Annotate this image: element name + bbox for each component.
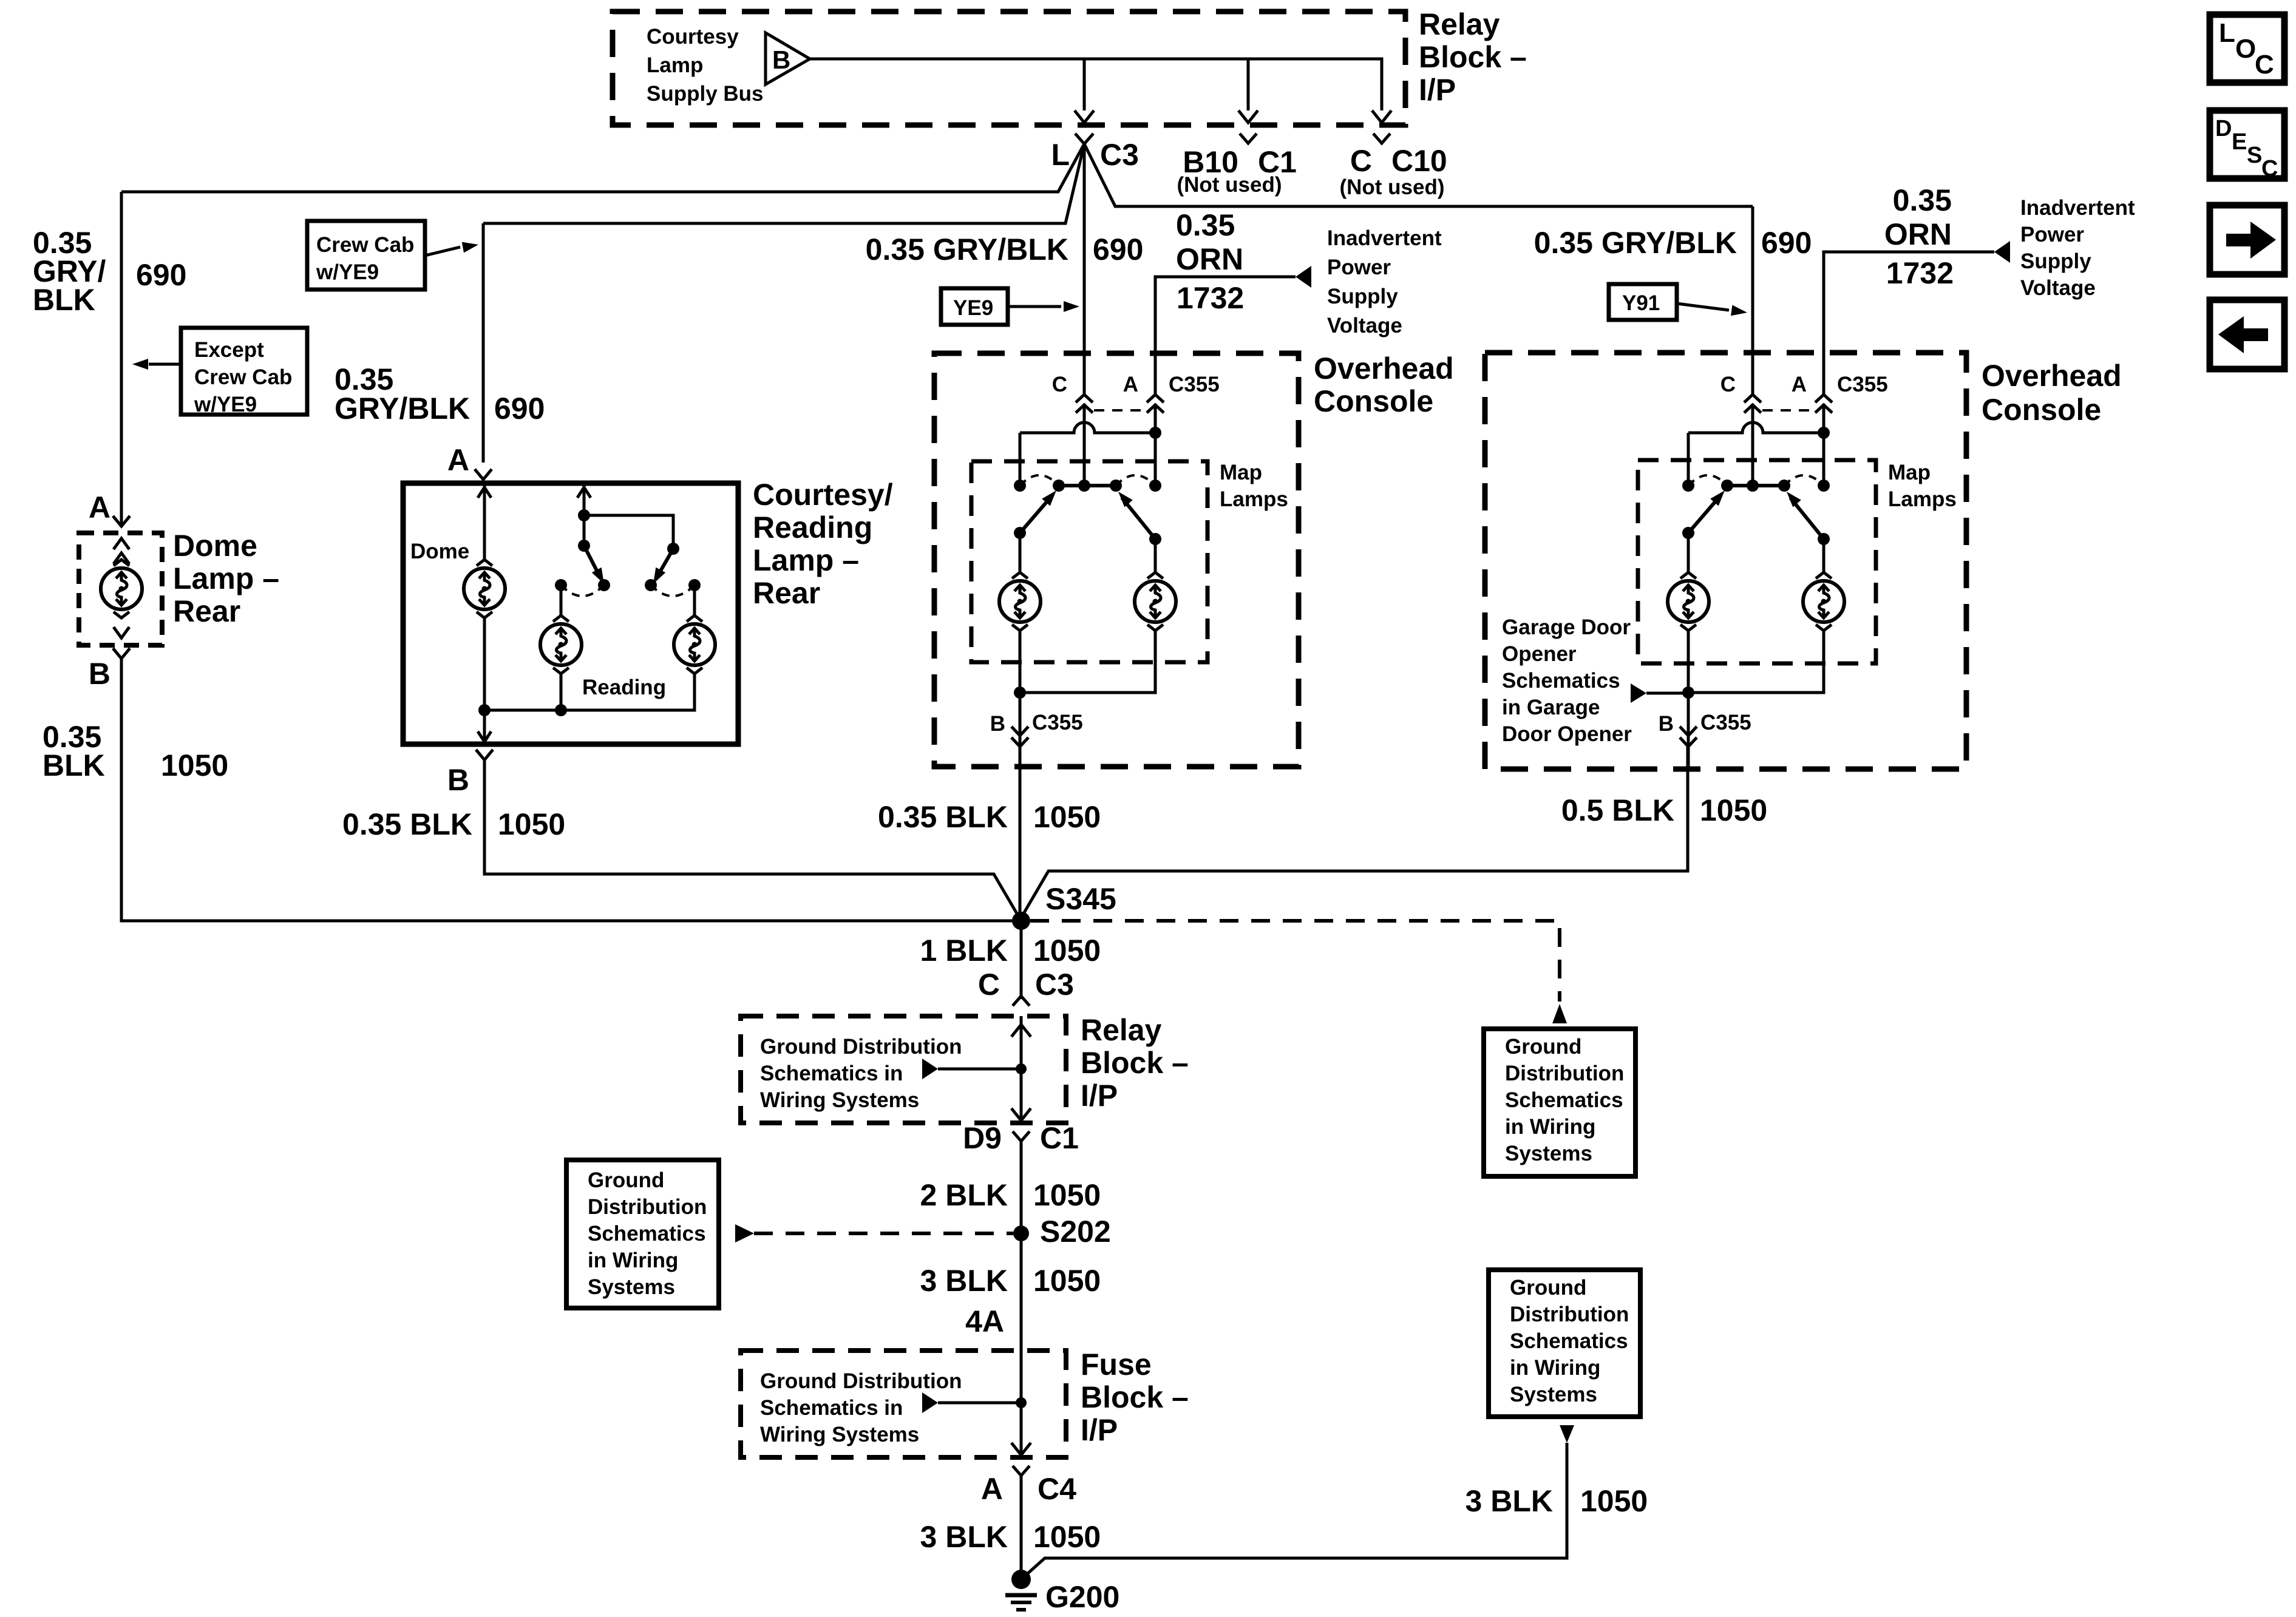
svg-text:Relay: Relay [1081, 1013, 1162, 1047]
node blade right pivot [1818, 533, 1830, 545]
svg-text:Console: Console [1982, 393, 2101, 427]
svg-text:Lamps: Lamps [1888, 487, 1957, 511]
wire lower right to G200 [1021, 1443, 1567, 1579]
node switch blade right pivot [667, 543, 679, 555]
overhead console (right) connector A chevrons [1815, 395, 1832, 402]
node blade left pivot [1682, 527, 1694, 539]
svg-text:B: B [990, 712, 1005, 736]
svg-text:Schematics: Schematics [1510, 1329, 1628, 1353]
YE9 box [941, 288, 1008, 325]
ground distribution box (left) [566, 1160, 719, 1308]
svg-text:BLK: BLK [42, 748, 105, 782]
dashed arc right [651, 585, 695, 596]
arrow down at x=2056 [1238, 110, 1258, 123]
wire dome bulb to bottom bus [483, 618, 486, 710]
svg-text:S345: S345 [1045, 882, 1116, 916]
wire B exit [1019, 693, 1022, 767]
svg-text:C3: C3 [1035, 968, 1074, 1002]
node contact right lamp [688, 579, 701, 591]
svg-text:0.35: 0.35 [1176, 208, 1235, 242]
relay block I/P dashed box (lower) [741, 1016, 1066, 1123]
svg-text:A: A [1123, 373, 1138, 396]
wire C down to middle console [1083, 144, 1086, 396]
dashed arc right [1116, 475, 1155, 486]
overhead console (right) dashed connector link [1762, 409, 1814, 412]
connector B dome chevron [113, 648, 130, 659]
node right contact [1149, 480, 1161, 492]
node left contact [1014, 480, 1026, 492]
svg-text:Inadvertent: Inadvertent [1327, 226, 1442, 250]
off-page triangle ORN right [1994, 241, 2010, 263]
svg-text:1050: 1050 [498, 807, 565, 841]
svg-text:Reading: Reading [582, 676, 666, 699]
svg-text:Systems: Systems [1505, 1142, 1592, 1165]
overhead console (middle) contact bus [1059, 484, 1116, 487]
svg-text:Distribution: Distribution [588, 1195, 707, 1219]
node A junction [1149, 427, 1161, 439]
node right contact [1818, 480, 1830, 492]
svg-text:C: C [2255, 50, 2274, 80]
arrow except crew cab [149, 363, 181, 366]
wire switch feed left drop [583, 515, 586, 546]
svg-text:1050: 1050 [1700, 793, 1767, 827]
switch blade left [584, 546, 598, 573]
arrow down at x=1786 [1075, 110, 1094, 123]
svg-text:Rear: Rear [173, 594, 240, 628]
wire middle console B to S345 [1019, 747, 1022, 914]
dashed reference to S202 [754, 1232, 1013, 1235]
svg-text:0.35 BLK: 0.35 BLK [878, 800, 1008, 834]
svg-text:BLK: BLK [33, 283, 95, 317]
dome lamp rear chevrons bottom [114, 627, 129, 638]
svg-text:1732: 1732 [1886, 256, 1954, 290]
switch blade left [1020, 498, 1050, 533]
svg-text:C355: C355 [1837, 373, 1888, 396]
svg-text:in Wiring: in Wiring [1505, 1115, 1595, 1139]
wire fan to crew-cab wire [483, 144, 1084, 223]
svg-text:690: 690 [1093, 232, 1143, 266]
svg-text:1050: 1050 [1033, 1520, 1101, 1554]
overhead console (middle) map lamps dashed box [971, 461, 1207, 662]
reading lamp left bulb [540, 615, 582, 674]
svg-text:690: 690 [136, 258, 186, 292]
svg-text:3 BLK: 3 BLK [920, 1264, 1008, 1298]
node bus dome [478, 704, 491, 716]
svg-text:4A: 4A [965, 1304, 1004, 1338]
svg-text:C: C [2261, 156, 2278, 181]
svg-text:(Not used): (Not used) [1339, 175, 1444, 199]
connector B courtesy chevron [476, 750, 493, 760]
overhead console (right) left branch [1687, 433, 1690, 486]
svg-text:Block –: Block – [1419, 40, 1527, 74]
svg-text:Relay: Relay [1419, 7, 1500, 41]
svg-text:Ground Distribution: Ground Distribution [760, 1035, 962, 1059]
overhead console (middle) wire A into switch [1154, 404, 1157, 486]
wire left rail upper [120, 192, 123, 526]
arrow down at x=2276 [1372, 110, 1391, 123]
relay block I/P dashed box [613, 12, 1405, 125]
svg-text:C355: C355 [1032, 711, 1083, 734]
svg-text:C: C [1350, 144, 1372, 178]
overhead console (middle) dashed connector link [1094, 409, 1146, 412]
svg-text:Lamp: Lamp [647, 53, 703, 77]
wire right console B down/left to S345 [1021, 747, 1688, 918]
svg-text:A: A [981, 1472, 1003, 1506]
node switch feed left [578, 509, 590, 521]
node bus centre [1747, 480, 1759, 492]
wire courtesy lamp supply bus [810, 59, 1382, 110]
wire switch feed stub [583, 483, 586, 515]
triangle to ground distribution box [1552, 1004, 1567, 1023]
svg-text:Voltage: Voltage [2020, 276, 2096, 300]
node B junction [1014, 686, 1026, 699]
svg-text:Schematics: Schematics [1502, 669, 1620, 693]
svg-text:GRY/BLK: GRY/BLK [335, 392, 470, 425]
wire exit to B [483, 710, 486, 744]
svg-text:C355: C355 [1700, 711, 1751, 734]
node right blade contact [1110, 480, 1122, 492]
reading lamp right bulb [674, 615, 715, 674]
wire ORN right [1824, 252, 1994, 396]
wire blade right to lamp [1154, 539, 1157, 572]
svg-text:C: C [978, 968, 1000, 1002]
svg-text:Distribution: Distribution [1510, 1303, 1629, 1326]
wire ORN middle [1155, 277, 1296, 396]
wire fan right to right console [1084, 144, 1753, 206]
arrow crew cab [425, 247, 460, 256]
svg-text:0.5 BLK: 0.5 BLK [1561, 793, 1674, 827]
wire left reading lamp top [560, 585, 563, 615]
svg-text:Y91: Y91 [1622, 291, 1660, 315]
connector D9 C1 chevron [1013, 1131, 1030, 1141]
reference arrow in fuse box [938, 1402, 1021, 1405]
dome lamp rear chevrons top [114, 538, 129, 549]
svg-text:Ground Distribution: Ground Distribution [760, 1369, 962, 1393]
node left blade contact [1721, 480, 1733, 492]
ground G200 [1011, 1570, 1031, 1589]
svg-text:Lamp –: Lamp – [753, 543, 859, 577]
dome lamp rear bulb [101, 560, 142, 618]
svg-text:1050: 1050 [161, 748, 228, 782]
switch blade right [1122, 498, 1155, 539]
svg-text:0.35 BLK: 0.35 BLK [342, 807, 472, 841]
ground distribution box (upper right) [1484, 1029, 1635, 1176]
wire D9 to S202 [1020, 1141, 1023, 1403]
node left blade contact [1053, 480, 1065, 492]
svg-text:Door Opener: Door Opener [1502, 722, 1632, 746]
svg-text:A: A [89, 490, 110, 524]
icon LOC box [2210, 15, 2284, 83]
wire lamps to B junction [1687, 631, 1690, 693]
node S345 [1012, 912, 1030, 930]
switch blade left [1688, 498, 1719, 533]
svg-text:S: S [2247, 143, 2262, 168]
svg-text:Dome: Dome [410, 540, 469, 563]
svg-text:B: B [1659, 712, 1674, 736]
overhead console (right) crossover link with hop [1688, 422, 1824, 433]
svg-text:w/YE9: w/YE9 [194, 393, 257, 416]
svg-text:Except: Except [194, 338, 264, 362]
svg-text:Fuse: Fuse [1081, 1347, 1152, 1381]
crew cab box [307, 221, 425, 290]
svg-text:Overhead: Overhead [1314, 351, 1454, 385]
wire right reading lamp top [693, 585, 696, 615]
svg-text:C1: C1 [1040, 1121, 1079, 1155]
ground distribution box (lower right) [1489, 1270, 1640, 1417]
overhead console (right) wire A into switch [1822, 404, 1826, 486]
node A junction [1818, 427, 1830, 439]
overhead console (middle) connector A chevrons [1147, 395, 1164, 402]
Y91 box [1609, 284, 1677, 320]
connector A C4 chevron [1013, 1466, 1030, 1476]
svg-text:I/P: I/P [1081, 1079, 1118, 1113]
overhead console (right) outer dashed box [1485, 353, 1966, 769]
node left contact [1682, 480, 1694, 492]
node B supply bus triangle [766, 33, 810, 84]
svg-text:Schematics in: Schematics in [760, 1062, 903, 1085]
svg-text:0.35: 0.35 [1893, 183, 1952, 217]
wire left rail lower [121, 659, 1014, 921]
node contact right blade [645, 579, 657, 591]
dome lamp rear dashed box [79, 533, 162, 645]
svg-text:Reading: Reading [753, 510, 872, 544]
svg-text:I/P: I/P [1081, 1413, 1118, 1447]
svg-text:Power: Power [1327, 256, 1391, 279]
connector L C3 chevron [1075, 134, 1093, 144]
svg-text:Block –: Block – [1081, 1380, 1189, 1414]
wire bottom bus of courtesy box [560, 674, 563, 710]
svg-text:Distribution: Distribution [1505, 1062, 1624, 1085]
svg-text:1050: 1050 [1033, 800, 1101, 834]
svg-text:L: L [2219, 18, 2235, 48]
svg-text:B: B [772, 46, 790, 74]
svg-text:C4: C4 [1038, 1472, 1076, 1506]
svg-text:ORN: ORN [1884, 217, 1952, 251]
svg-text:Rear: Rear [753, 576, 820, 610]
overhead console (middle) map lamp right bulb [1135, 572, 1176, 631]
arrow Y91 [1677, 303, 1729, 310]
switch blade right [1790, 498, 1824, 539]
overhead console (middle) map lamp left bulb [999, 572, 1041, 631]
svg-text:1050: 1050 [1033, 934, 1101, 968]
node relay box tap [1016, 1063, 1027, 1074]
svg-text:C3: C3 [1100, 138, 1139, 172]
svg-text:(Not used): (Not used) [1177, 173, 1282, 197]
svg-text:Voltage: Voltage [1327, 314, 1402, 337]
svg-text:C10: C10 [1391, 144, 1447, 178]
svg-text:Schematics in: Schematics in [760, 1396, 903, 1420]
svg-text:690: 690 [1761, 226, 1812, 260]
svg-text:Courtesy: Courtesy [647, 25, 739, 49]
svg-text:Ground: Ground [1505, 1035, 1581, 1059]
svg-text:0.35 GRY/BLK: 0.35 GRY/BLK [866, 232, 1068, 266]
wire S345 down [1020, 921, 1023, 999]
overhead console (right) map lamps dashed box [1638, 460, 1876, 663]
wire A C4 to ground [1020, 1476, 1023, 1579]
svg-text:Overhead: Overhead [1982, 359, 2122, 393]
svg-text:0.35 GRY/BLK: 0.35 GRY/BLK [1534, 226, 1737, 260]
svg-text:Schematics: Schematics [1505, 1088, 1623, 1112]
svg-text:1 BLK: 1 BLK [920, 934, 1008, 968]
svg-text:S202: S202 [1040, 1215, 1111, 1249]
wire blade right to lamp [1822, 539, 1826, 572]
svg-text:in Wiring: in Wiring [588, 1249, 678, 1272]
svg-text:Lamp –: Lamp – [173, 561, 279, 595]
svg-text:YE9: YE9 [953, 296, 993, 320]
svg-text:1050: 1050 [1580, 1484, 1648, 1518]
garage door opener reference arrow [1646, 692, 1688, 695]
svg-text:Inadvertent: Inadvertent [2020, 196, 2135, 220]
connector A courtesy chevron [475, 469, 492, 480]
fuse block I/P dashed box [741, 1351, 1066, 1457]
dashed arc left [1020, 475, 1059, 486]
overhead console (middle) outer dashed box [934, 353, 1299, 767]
connector C C3 chevron [1013, 996, 1030, 1006]
svg-text:Courtesy/: Courtesy/ [753, 478, 893, 512]
overhead console (right) contact bus [1727, 484, 1784, 487]
svg-text:3 BLK: 3 BLK [1466, 1484, 1553, 1518]
svg-text:Schematics: Schematics [588, 1222, 706, 1246]
arrow YE9 [1008, 305, 1061, 308]
svg-text:D9: D9 [963, 1121, 1002, 1155]
svg-text:3 BLK: 3 BLK [920, 1520, 1008, 1554]
wire dome branch entry arrow [483, 483, 486, 560]
svg-text:I/P: I/P [1419, 73, 1456, 107]
triangle below lower right box [1560, 1425, 1574, 1443]
svg-text:D: D [2215, 116, 2232, 141]
svg-text:Ground: Ground [588, 1168, 664, 1192]
svg-text:Supply: Supply [1327, 285, 1398, 308]
dashed arc left [1688, 475, 1727, 486]
connector A dome chevron [113, 516, 130, 526]
node fuse box tap [1016, 1397, 1027, 1408]
overhead console (right) map lamp left bulb [1668, 572, 1709, 631]
wire lamps to B junction [1019, 631, 1022, 693]
node switch blade left pivot [578, 540, 590, 552]
svg-text:1050: 1050 [1033, 1178, 1101, 1212]
svg-text:Map: Map [1888, 461, 1931, 484]
wire switch feed horizontal [584, 515, 673, 549]
svg-text:C: C [1720, 373, 1736, 396]
svg-text:B: B [89, 657, 110, 691]
wire drop to L [1083, 59, 1086, 110]
svg-text:2 BLK: 2 BLK [920, 1178, 1008, 1212]
overhead console (right) connector C chevrons [1744, 395, 1761, 402]
svg-text:G200: G200 [1045, 1580, 1119, 1614]
icon arrow right box [2210, 205, 2284, 274]
dome bulb (courtesy box) [464, 560, 505, 618]
svg-text:L: L [1051, 138, 1070, 172]
svg-text:Map: Map [1220, 461, 1262, 484]
node blade left pivot [1014, 527, 1026, 539]
svg-text:Crew Cab: Crew Cab [194, 365, 292, 389]
svg-text:Power: Power [2020, 223, 2084, 246]
node right blade contact [1778, 480, 1790, 492]
svg-text:C: C [1052, 373, 1067, 396]
svg-text:B: B [447, 763, 469, 797]
svg-text:A: A [1792, 373, 1807, 396]
node contact left lamp [555, 579, 567, 591]
node B junction [1682, 686, 1694, 699]
node bus centre [1078, 480, 1090, 492]
connector B10 C1 chevron [1240, 134, 1257, 143]
svg-text:Wiring Systems: Wiring Systems [760, 1423, 919, 1446]
wire B exit [1687, 693, 1690, 769]
node contact left blade [598, 579, 610, 591]
svg-text:O: O [2235, 34, 2256, 64]
node bus left reading [555, 704, 567, 716]
node S202 [1013, 1225, 1029, 1241]
except crew cab box [181, 328, 307, 415]
dashed arc left [561, 585, 604, 596]
svg-text:Console: Console [1314, 384, 1433, 418]
wire through relay box [1020, 1016, 1023, 1123]
svg-text:Crew Cab: Crew Cab [316, 233, 414, 257]
wire drop to B10 [1247, 59, 1250, 110]
svg-text:Lamps: Lamps [1220, 487, 1288, 511]
off-page triangle ORN middle [1296, 266, 1311, 288]
wire blade left to lamp [1019, 533, 1022, 572]
svg-text:Wiring Systems: Wiring Systems [760, 1088, 919, 1112]
overhead console (right) map lamp right bulb [1803, 572, 1844, 631]
svg-text:E: E [2232, 129, 2247, 155]
connector C C10 chevron [1373, 134, 1390, 143]
svg-text:Supply Bus: Supply Bus [647, 82, 764, 106]
wire fan left to far-left rail [121, 144, 1084, 192]
svg-text:1050: 1050 [1033, 1264, 1101, 1298]
svg-text:Supply: Supply [2020, 249, 2091, 273]
svg-text:in Wiring: in Wiring [1510, 1356, 1600, 1380]
svg-text:ORN: ORN [1176, 242, 1243, 276]
icon arrow left box [2210, 300, 2284, 369]
overhead console (middle) left branch [1019, 433, 1022, 486]
svg-text:Ground: Ground [1510, 1276, 1586, 1300]
wire blade left to lamp [1687, 533, 1690, 572]
overhead console (middle) crossover link with hop [1020, 422, 1155, 433]
svg-text:Systems: Systems [1510, 1383, 1597, 1406]
svg-text:C355: C355 [1169, 373, 1220, 396]
node blade right pivot [1149, 533, 1161, 545]
wire through fuse box [1020, 1403, 1023, 1457]
reference arrow in relay box [938, 1068, 1021, 1071]
svg-text:in Garage: in Garage [1502, 696, 1600, 719]
svg-text:w/YE9: w/YE9 [316, 260, 379, 284]
courtesy reading lamp box [403, 483, 738, 744]
dashed arc right [1784, 475, 1824, 486]
dashed reference from S345 [1030, 921, 1560, 1002]
svg-text:Block –: Block – [1081, 1046, 1189, 1080]
svg-text:A: A [447, 443, 469, 477]
svg-text:1732: 1732 [1177, 281, 1244, 315]
switch blade right [659, 549, 673, 573]
icon DESC box [2210, 110, 2284, 181]
svg-text:Opener: Opener [1502, 642, 1577, 666]
wire right console C feed corner [1751, 206, 1754, 396]
svg-text:Garage Door: Garage Door [1502, 615, 1631, 639]
wire crew cab to courtesy lamp A [482, 223, 485, 463]
overhead console (middle) connector C chevrons [1076, 395, 1093, 402]
wire courtesy B down to S345 [484, 760, 1021, 921]
svg-text:690: 690 [494, 392, 545, 425]
svg-text:Systems: Systems [588, 1275, 675, 1299]
svg-text:Dome: Dome [173, 529, 257, 563]
